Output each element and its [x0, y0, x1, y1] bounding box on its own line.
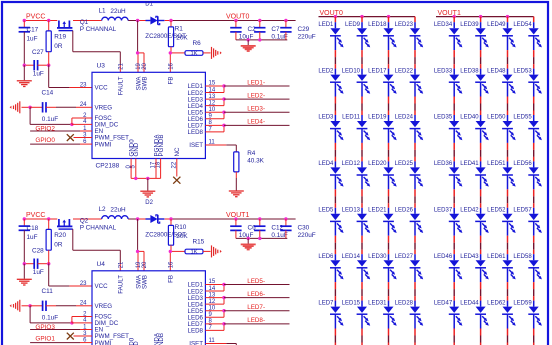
- svg-text:NC: NC: [174, 147, 181, 156]
- svg-text:C14: C14: [42, 90, 54, 97]
- ground below C28: [17, 264, 32, 285]
- capacitor C27 1uF: [23, 49, 51, 78]
- svg-text:1uF: 1uF: [33, 71, 44, 78]
- LED LED5: [318, 208, 343, 255]
- LED LED17: [368, 68, 397, 115]
- svg-text:LED5-: LED5-: [247, 278, 265, 285]
- svg-text:LED4-: LED4-: [247, 119, 265, 126]
- svg-text:LED15: LED15: [342, 300, 361, 306]
- LED LED36: [434, 161, 463, 208]
- svg-text:SWB: SWB: [141, 275, 148, 289]
- resistor R6 1K: [185, 40, 203, 57]
- net label LED2-: [247, 92, 265, 99]
- svg-text:P CHANNAL: P CHANNAL: [80, 225, 117, 232]
- svg-text:C7: C7: [271, 26, 280, 33]
- wire LED4- net from pins: [205, 124, 289, 132]
- inductor L2 22uH: [99, 206, 129, 219]
- net label GPIO1: [35, 336, 55, 343]
- LED LED52: [487, 208, 516, 255]
- net label GPIO3: [35, 324, 55, 331]
- svg-text:LED2-: LED2-: [247, 92, 265, 99]
- svg-text:LED3-: LED3-: [247, 106, 265, 113]
- svg-text:U3: U3: [97, 63, 106, 70]
- svg-text:LED14: LED14: [342, 254, 361, 260]
- svg-text:VOUT0: VOUT0: [226, 14, 249, 21]
- LED LED59: [513, 300, 542, 345]
- LED LED42: [460, 208, 489, 255]
- svg-text:FB: FB: [168, 77, 175, 85]
- svg-text:LED11: LED11: [342, 115, 361, 121]
- ground left of C14: [10, 101, 31, 113]
- svg-text:R20: R20: [54, 232, 66, 239]
- svg-text:LED48: LED48: [487, 68, 506, 74]
- LED LED9: [345, 17, 370, 69]
- IC U3 top pin names and numbers: [118, 62, 175, 95]
- svg-text:40.3K: 40.3K: [247, 157, 264, 164]
- wire PVCC rail (bottom block): [24, 218, 295, 220]
- svg-text:1uF: 1uF: [33, 269, 44, 276]
- capacitor C12 0.1uF: [254, 217, 288, 239]
- svg-text:LED8: LED8: [188, 328, 204, 335]
- IC U4 left pin names and numbers: [80, 281, 129, 345]
- svg-text:LED47: LED47: [434, 300, 453, 306]
- svg-text:VREG: VREG: [95, 105, 113, 112]
- svg-text:PGNDB: PGNDB: [158, 333, 165, 345]
- svg-text:LED24: LED24: [395, 115, 414, 121]
- LED LED15: [342, 300, 371, 345]
- LED LED2: [318, 68, 343, 115]
- svg-text:20: 20: [142, 261, 148, 268]
- svg-text:LED3: LED3: [318, 115, 334, 121]
- svg-text:GND: GND: [133, 142, 140, 156]
- wire GPIO1 to PWMI pin (bottom block): [30, 342, 92, 344]
- LED LED10: [342, 68, 371, 115]
- svg-text:D1: D1: [145, 2, 153, 8]
- svg-text:VCC: VCC: [95, 283, 109, 290]
- LED LED49: [487, 17, 516, 69]
- svg-text:GPIO0: GPIO0: [35, 137, 55, 144]
- svg-text:LED41: LED41: [460, 161, 479, 167]
- svg-text:LED26: LED26: [395, 208, 414, 214]
- svg-text:PVCC: PVCC: [26, 13, 45, 20]
- wire VOUT0 rail (LED bank): [319, 15, 416, 18]
- svg-text:23: 23: [80, 82, 87, 88]
- svg-text:LED42: LED42: [460, 208, 479, 214]
- svg-text:Q2: Q2: [80, 218, 89, 225]
- svg-text:C28: C28: [32, 248, 44, 255]
- svg-text:20: 20: [142, 62, 148, 69]
- value label ZC2800E/SOT of D1: [145, 33, 186, 40]
- wire SW node to SWA SWB pins (bottom block): [136, 219, 144, 271]
- wire VCC net (top block): [49, 65, 92, 87]
- svg-text:220uF: 220uF: [298, 232, 316, 239]
- svg-text:21: 21: [118, 62, 124, 69]
- LED LED33: [434, 68, 463, 115]
- svg-text:0.1uF: 0.1uF: [42, 116, 58, 123]
- ground below output caps (bottom block): [241, 244, 256, 249]
- net label LED6-: [247, 291, 265, 298]
- svg-text:0R: 0R: [54, 43, 63, 50]
- svg-text:GPIO1: GPIO1: [35, 336, 55, 343]
- wire gate of Q2 to FAULT pin: [73, 229, 121, 271]
- svg-text:LED54: LED54: [513, 22, 532, 28]
- svg-text:LED44: LED44: [460, 300, 479, 306]
- LED LED61: [487, 254, 516, 301]
- no-connect X on NC pin 22 (top block): [173, 159, 180, 184]
- svg-text:ZC2800E/SOT: ZC2800E/SOT: [145, 232, 186, 239]
- LED LED4: [318, 161, 343, 208]
- wire LED6- net from pins: [205, 296, 289, 304]
- ground below R4: [229, 172, 244, 197]
- svg-text:LED58: LED58: [513, 254, 532, 260]
- svg-text:L1: L1: [99, 8, 107, 15]
- svg-text:22uH: 22uH: [110, 207, 126, 214]
- LED LED47: [434, 300, 463, 345]
- capacitor C11 0.1uF: [28, 288, 92, 321]
- capacitor C14 0.1uF: [28, 90, 92, 123]
- svg-text:PWMI: PWMI: [95, 340, 112, 345]
- LED LED13: [342, 208, 371, 255]
- net label LED8-: [247, 317, 265, 324]
- svg-text:ISET: ISET: [189, 142, 203, 149]
- wire VOUT1 rail (LED bank): [436, 15, 534, 18]
- capacitor C6 10uF: [230, 217, 256, 239]
- svg-text:LED6: LED6: [318, 254, 334, 260]
- LED LED25: [395, 161, 424, 208]
- LED LED51: [487, 161, 516, 208]
- LED LED24: [395, 115, 424, 162]
- svg-text:LED19: LED19: [368, 115, 387, 121]
- resistor R4 40.3K: [234, 150, 265, 172]
- svg-text:LED46: LED46: [434, 254, 453, 260]
- resistor R10 20K: [168, 219, 188, 251]
- svg-text:LED30: LED30: [368, 254, 387, 260]
- LED LED3: [318, 115, 343, 162]
- svg-text:LED62: LED62: [487, 300, 506, 306]
- LED LED30: [368, 254, 397, 301]
- resistor R19 0R: [46, 21, 66, 66]
- svg-text:VCC: VCC: [95, 85, 109, 92]
- LED LED6: [318, 254, 343, 301]
- svg-text:GND: GND: [133, 341, 140, 345]
- svg-text:LED8: LED8: [188, 129, 204, 136]
- LED LED23: [395, 17, 424, 69]
- transistor Q2 P CHANNAL PMOS: [57, 218, 117, 232]
- svg-text:1uF: 1uF: [27, 36, 38, 43]
- LED LED41: [460, 161, 489, 208]
- wire FB node (top block): [169, 51, 185, 72]
- svg-text:L2: L2: [99, 206, 107, 213]
- svg-text:LED4: LED4: [318, 161, 334, 167]
- wire GPIO3 to EN pin (bottom block): [30, 329, 92, 331]
- LED LED18: [368, 17, 397, 69]
- svg-text:LED23: LED23: [395, 22, 414, 28]
- svg-text:LED7: LED7: [318, 300, 334, 306]
- net label VOUT (VOUT0): [226, 14, 249, 21]
- no-connect X on PWM_FSET pin (bottom block): [67, 333, 92, 340]
- LED LED7: [318, 300, 343, 345]
- svg-text:R10: R10: [175, 224, 187, 231]
- diode D1 schottky: [145, 2, 164, 25]
- IC U4 right pin names and numbers: [188, 279, 216, 345]
- svg-text:R1: R1: [175, 25, 184, 32]
- power net PVCC label (bottom block): [26, 212, 45, 219]
- svg-text:LED35: LED35: [434, 115, 453, 121]
- net label LED3-: [247, 106, 265, 113]
- LED LED43: [460, 254, 489, 301]
- svg-text:LED17: LED17: [368, 68, 387, 74]
- svg-text:LED49: LED49: [487, 22, 506, 28]
- svg-text:LED7-: LED7-: [247, 304, 265, 311]
- capacitor C30 220uF: [280, 217, 316, 239]
- svg-text:LED34: LED34: [434, 22, 453, 28]
- resistor R20 0R: [46, 219, 66, 264]
- svg-text:C11: C11: [42, 288, 54, 295]
- capacitor C2 10uF: [230, 19, 256, 41]
- LED LED22: [395, 68, 424, 115]
- svg-text:LED22: LED22: [395, 68, 414, 74]
- svg-text:LED57: LED57: [513, 208, 532, 214]
- svg-text:16: 16: [168, 261, 174, 268]
- IC U4 top pin names and numbers: [118, 261, 175, 294]
- svg-text:LED51: LED51: [487, 161, 506, 167]
- capacitor C7 0.1uF: [254, 19, 288, 41]
- svg-text:FAULT: FAULT: [118, 76, 125, 95]
- svg-text:0.1uF: 0.1uF: [42, 314, 58, 321]
- svg-text:LED13: LED13: [342, 208, 361, 214]
- LED LED55: [513, 115, 542, 162]
- inductor L1 22uH: [99, 8, 129, 21]
- svg-text:LED21: LED21: [368, 208, 387, 214]
- wire PVCC rail (top block): [24, 20, 295, 22]
- LED LED39: [460, 17, 489, 69]
- LED LED38: [460, 68, 489, 115]
- LED LED1: [318, 17, 343, 69]
- svg-text:LED5: LED5: [318, 208, 334, 214]
- wire LED7- net from pins: [205, 309, 289, 317]
- LED LED50: [487, 115, 516, 162]
- IC U3 bottom pin names and numbers: [126, 134, 181, 169]
- wire GPIO0 to PWMI pin (top block): [30, 143, 92, 145]
- LED LED31: [368, 300, 397, 345]
- ground below output caps (top block): [241, 46, 256, 51]
- svg-text:LED38: LED38: [460, 68, 479, 74]
- junction dots on rail (top block): [23, 19, 173, 22]
- resistor R15 1K: [185, 239, 205, 256]
- wire cap ground rail (top block): [236, 38, 287, 45]
- svg-text:LED9: LED9: [345, 22, 361, 28]
- LED LED54: [513, 17, 542, 69]
- capacitor C29 220uF: [280, 19, 316, 41]
- wire VREG to FOSC DIM_DC (bottom block): [30, 306, 92, 325]
- svg-text:1K: 1K: [190, 250, 197, 256]
- svg-text:U4: U4: [97, 261, 106, 268]
- svg-text:VOUT1: VOUT1: [226, 212, 249, 219]
- svg-text:23: 23: [80, 281, 87, 287]
- power net PVCC label (top block): [26, 13, 45, 20]
- net label VOUT1 (LED bank): [438, 10, 461, 17]
- svg-text:LED55: LED55: [513, 115, 532, 121]
- LED LED62: [487, 300, 516, 345]
- svg-text:C17: C17: [27, 26, 39, 33]
- svg-text:PWMI: PWMI: [95, 141, 112, 148]
- ground below C27: [17, 65, 32, 86]
- svg-text:LED40: LED40: [460, 115, 479, 121]
- ground right of R15: [203, 245, 222, 257]
- svg-text:LED8-: LED8-: [247, 317, 265, 324]
- svg-text:LED12: LED12: [342, 161, 361, 167]
- capacitor C28 1uF: [23, 248, 51, 277]
- svg-text:LED2: LED2: [318, 68, 334, 74]
- LED LED11: [342, 115, 370, 162]
- wire LED3- net from pins: [205, 111, 289, 119]
- svg-text:21: 21: [118, 261, 124, 268]
- net label GPIO2: [35, 125, 55, 132]
- net label GPIO0: [35, 137, 55, 144]
- svg-text:220uF: 220uF: [298, 34, 316, 41]
- wire FB node (bottom block): [169, 250, 185, 271]
- LED LED21: [368, 208, 397, 255]
- svg-text:R15: R15: [193, 239, 205, 246]
- net label LED4-: [247, 119, 265, 126]
- ground right of R6: [203, 47, 222, 59]
- capacitor C18 1uF: [19, 219, 39, 264]
- svg-text:LED52: LED52: [487, 208, 506, 214]
- svg-text:LED39: LED39: [460, 22, 479, 28]
- LED LED26: [395, 208, 424, 255]
- IC U3 right pin names and numbers: [188, 81, 216, 150]
- wire ISET pin 11 (top block): [205, 145, 236, 152]
- svg-text:LED37: LED37: [434, 208, 453, 214]
- svg-text:D2: D2: [145, 200, 153, 206]
- wire LED8- net from pins: [205, 322, 289, 330]
- svg-text:1K: 1K: [190, 51, 197, 57]
- net label VOUT (VOUT1): [226, 212, 249, 219]
- wire cap ground rail (bottom block): [236, 237, 287, 244]
- svg-text:LED1-: LED1-: [247, 79, 265, 86]
- svg-text:Q1: Q1: [80, 19, 89, 26]
- junction dots on rail (bottom block): [23, 217, 173, 220]
- svg-text:C18: C18: [27, 225, 39, 232]
- svg-text:LED31: LED31: [368, 300, 387, 306]
- wire LED5- net from pins: [205, 283, 289, 291]
- LED LED27: [395, 254, 424, 301]
- net label VOUT0 (LED bank): [320, 10, 343, 17]
- svg-text:PVCC: PVCC: [26, 212, 45, 219]
- diode D2 schottky: [145, 200, 164, 223]
- LED LED44: [460, 300, 489, 345]
- svg-text:LED59: LED59: [513, 300, 532, 306]
- LED LED46: [434, 254, 463, 301]
- wire ISET pin 11 (bottom block): [205, 344, 236, 345]
- wire VCC net (bottom block): [49, 264, 92, 286]
- wire SW node to SWA SWB pins (top block): [136, 21, 144, 73]
- svg-text:C29: C29: [298, 26, 310, 33]
- svg-text:16: 16: [168, 62, 174, 69]
- svg-text:LED61: LED61: [487, 254, 506, 260]
- wire LED2- net from pins: [205, 97, 289, 105]
- svg-text:1uF: 1uF: [27, 234, 38, 241]
- LED LED48: [487, 68, 516, 115]
- svg-text:LED28: LED28: [395, 300, 414, 306]
- LED LED34: [434, 17, 463, 69]
- svg-text:LED33: LED33: [434, 68, 453, 74]
- svg-text:0R: 0R: [54, 242, 63, 249]
- svg-text:PGNDB: PGNDB: [158, 134, 165, 156]
- wire LED1- net from pins: [205, 84, 289, 92]
- wire GPIO2 to EN pin (top block): [30, 130, 92, 132]
- net label LED1-: [247, 79, 265, 86]
- svg-text:R19: R19: [54, 34, 66, 41]
- wire VREG to FOSC DIM_DC (top block): [30, 107, 92, 126]
- LED LED40: [460, 115, 489, 162]
- svg-text:VREG: VREG: [95, 303, 113, 310]
- svg-text:LED50: LED50: [487, 115, 506, 121]
- IC U3 left pin names and numbers: [80, 82, 129, 148]
- svg-text:R4: R4: [247, 150, 256, 157]
- LED LED19: [368, 115, 397, 162]
- svg-text:ZC2800E/SOT: ZC2800E/SOT: [145, 33, 186, 40]
- svg-text:P CHANNAL: P CHANNAL: [80, 26, 117, 33]
- svg-text:LED10: LED10: [342, 68, 361, 74]
- svg-text:LED36: LED36: [434, 161, 453, 167]
- svg-text:22uH: 22uH: [110, 8, 126, 15]
- net label LED7-: [247, 304, 265, 311]
- svg-text:R6: R6: [193, 40, 202, 47]
- ground left of C11: [10, 300, 31, 312]
- wire ground pins bus (top block): [131, 159, 161, 191]
- ground below IC U3: [140, 191, 155, 197]
- LED LED12: [342, 161, 371, 208]
- svg-text:LED27: LED27: [395, 254, 414, 260]
- no-connect X on PWM_FSET pin (top block): [67, 134, 92, 141]
- LED LED56: [513, 161, 542, 208]
- LED LED57: [513, 208, 542, 255]
- resistor R1 20K: [168, 21, 188, 53]
- op-amp IC U4 CP2188 body: [92, 261, 205, 345]
- svg-text:ISET: ISET: [189, 341, 203, 345]
- svg-text:C27: C27: [32, 49, 44, 56]
- svg-text:C30: C30: [298, 224, 310, 231]
- svg-text:CP2188: CP2188: [96, 162, 120, 169]
- svg-text:SWB: SWB: [141, 77, 148, 91]
- LED LED37: [434, 208, 463, 255]
- svg-text:LED1: LED1: [318, 22, 334, 28]
- wire gate of Q1 to FAULT pin: [73, 31, 121, 73]
- svg-text:LED53: LED53: [513, 68, 532, 74]
- LED LED28: [395, 300, 424, 345]
- LED LED14: [342, 254, 371, 301]
- svg-text:LED18: LED18: [368, 22, 387, 28]
- capacitor C17 1uF: [19, 21, 39, 66]
- IC U4 bottom pin names and numbers: [126, 332, 181, 345]
- LED LED35: [434, 115, 463, 162]
- svg-text:LED25: LED25: [395, 161, 414, 167]
- svg-text:LED20: LED20: [368, 161, 387, 167]
- transistor Q1 P CHANNAL PMOS: [57, 19, 117, 33]
- net label LED5-: [247, 278, 265, 285]
- LED LED53: [513, 68, 542, 115]
- svg-text:LED6-: LED6-: [247, 291, 265, 298]
- value label ZC2800E/SOT of D2: [145, 232, 186, 239]
- LED LED20: [368, 161, 397, 208]
- svg-text:FAULT: FAULT: [118, 275, 125, 294]
- op-amp IC U3 CP2188 body: [92, 63, 205, 170]
- svg-text:LED43: LED43: [460, 254, 479, 260]
- svg-text:FB: FB: [168, 275, 175, 283]
- svg-text:LED56: LED56: [513, 161, 532, 167]
- LED LED58: [513, 254, 542, 301]
